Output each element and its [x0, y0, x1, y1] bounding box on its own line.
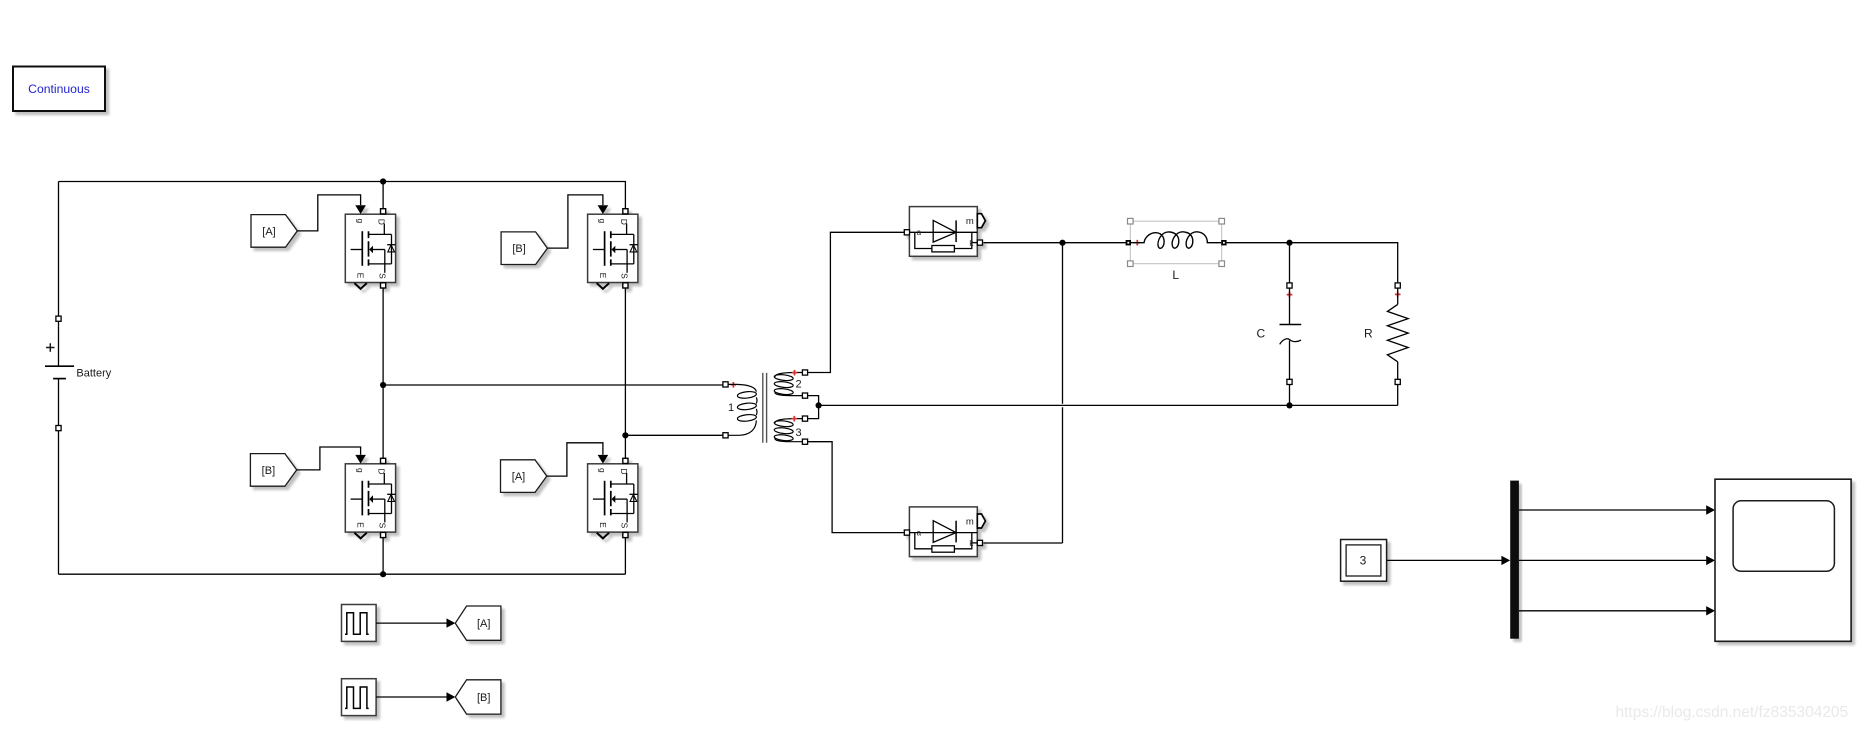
From tag [A] for Q1 gate [251, 215, 297, 248]
wire node to inductor [1063, 242, 1126, 244]
transistor Q4 (MOSFET lower-right) [588, 455, 638, 539]
wire winding3- to diode D2 anode [808, 442, 905, 533]
transistor Q3 (MOSFET lower-left) [345, 455, 395, 539]
svg-text:1: 1 [728, 402, 734, 414]
wire top DC rail [59, 182, 626, 209]
wire port to plate [1289, 288, 1291, 324]
wire From[A] to Q4 gate [547, 443, 603, 476]
svg-text:C: C [1256, 327, 1265, 341]
svg-text:[B]: [B] [477, 692, 490, 704]
transistor Q2 (MOSFET upper-right) [588, 205, 638, 288]
svg-text:Continuous: Continuous [28, 82, 90, 96]
wire From[B] to Q2 gate [547, 195, 603, 248]
red plus primary [731, 382, 737, 388]
wire right bridge leg [624, 289, 626, 459]
wire demux out 1 to scope [1519, 509, 1707, 511]
svg-text:[A]: [A] [512, 471, 525, 483]
wire right midpoint to transformer primary - [625, 434, 723, 436]
wire node to capacitor [1289, 243, 1291, 283]
From tag [B] for Q3 gate [250, 454, 296, 487]
svg-text:3: 3 [1360, 554, 1367, 568]
scope block [1715, 479, 1851, 641]
battery short plate [53, 378, 66, 380]
wire left bridge leg [382, 289, 384, 459]
resistor bottom port [1395, 379, 1400, 384]
svg-text:[A]: [A] [477, 618, 490, 630]
svg-text:[B]: [B] [512, 243, 525, 255]
svg-text:https://blog.csdn.net/fz835304: https://blog.csdn.net/fz835304205 [1616, 704, 1849, 721]
svg-text:3: 3 [795, 427, 801, 439]
primary winding 1 coil [728, 384, 757, 435]
capacitor bottom plate (curved) [1280, 339, 1301, 345]
red plus winding 3 [792, 416, 798, 422]
wire demux out 3 to scope [1519, 610, 1707, 612]
pulse generator P2 [342, 679, 377, 716]
transformer T1 [723, 370, 808, 444]
resistor R [1364, 283, 1408, 406]
powergui block (Continuous) [13, 67, 105, 112]
wire to return rail [1397, 385, 1399, 406]
wire bottom DC rail [59, 573, 626, 575]
wire battery bottom to rail [58, 431, 60, 574]
selection handles [1128, 218, 1225, 266]
wire battery top to rail [58, 182, 60, 316]
capacitor top port [1287, 283, 1292, 288]
winding 2 ports [802, 370, 807, 375]
wire constant 3 to demux [1387, 559, 1502, 561]
secondary winding 2 coil [774, 373, 802, 396]
node bottom rail / Q3 source [380, 571, 386, 577]
wire rectifier link vertical (with crossover gap) [983, 243, 1062, 543]
From tag [B] for Q2 gate [501, 232, 547, 265]
wire port to zigzag [1397, 288, 1399, 304]
battery DC source [45, 182, 112, 575]
wire P2 to Goto[B] [376, 696, 447, 698]
primary winding 1 port - [723, 433, 728, 438]
red plus capacitor [1287, 292, 1293, 298]
diode D2 (lower rectifier) [904, 507, 985, 557]
node top rail / Q1 drain [380, 178, 386, 184]
wire port to plate [58, 322, 60, 367]
battery - terminal port [56, 426, 61, 431]
node capacitor bottom on return rail [1286, 402, 1292, 408]
primary winding 1 port + [723, 382, 728, 387]
Goto tag [B] [455, 680, 501, 714]
node left leg midpoint [380, 382, 386, 388]
svg-text:L: L [1172, 268, 1179, 282]
red plus inductor [1135, 240, 1141, 246]
transistor Q1 (MOSFET upper-left) [345, 205, 395, 288]
wire inductor to output node [1227, 243, 1398, 283]
capacitor C [1256, 283, 1301, 406]
battery long plate [45, 365, 74, 367]
selection box [1130, 221, 1221, 264]
inductor left port [1126, 240, 1131, 245]
demux bar [1510, 481, 1519, 639]
resistor top port [1395, 283, 1400, 288]
svg-text:2: 2 [795, 379, 801, 391]
wire to return rail [1289, 385, 1291, 406]
red plus resistor [1395, 292, 1401, 298]
diode D1 (upper rectifier) [904, 207, 985, 257]
wire center tap to load return rail [819, 404, 1398, 406]
constant block 3 [1341, 540, 1387, 582]
svg-text:[B]: [B] [262, 465, 275, 477]
wire P1 to Goto[A] [376, 622, 447, 624]
red plus winding 2 [792, 370, 798, 376]
wire D1 cathode to filter node [983, 242, 1062, 244]
pulse generator P1 [342, 605, 377, 642]
wire Q4 source to bottom rail [624, 538, 626, 574]
Goto tag [A] [455, 606, 501, 640]
inductor right port [1221, 240, 1226, 245]
capacitor bottom port [1287, 379, 1292, 384]
wire rail to Q1 drain [382, 182, 384, 209]
winding 3 ports [802, 416, 807, 421]
wire From[B] to Q3 gate [297, 447, 361, 470]
node right leg midpoint [622, 432, 628, 438]
battery + terminal port [56, 316, 61, 321]
From tag [A] for Q4 gate [501, 460, 547, 493]
wire zigzag to bottom port [1397, 362, 1399, 379]
svg-text:Battery: Battery [76, 368, 111, 380]
resistor zigzag [1387, 304, 1408, 361]
svg-text:R: R [1364, 326, 1373, 340]
battery plus sign [46, 343, 55, 352]
wire center tap (winding2- to winding3+) [808, 396, 819, 419]
wire demux out 2 to scope [1519, 559, 1707, 561]
wire left midpoint to transformer primary + [383, 384, 723, 386]
inductor L (selected) [1126, 218, 1227, 282]
wire winding2+ to diode D1 anode [808, 232, 905, 372]
capacitor top plate [1280, 324, 1302, 326]
node capacitor top [1286, 240, 1292, 246]
inductor coil [1131, 232, 1221, 248]
wire plate to port [58, 379, 60, 426]
node center tap [816, 402, 822, 408]
wire From[A] to Q1 gate [297, 195, 360, 231]
wire Q3 source to bottom rail [382, 538, 384, 574]
transformer core [763, 373, 767, 443]
svg-text:[A]: [A] [262, 226, 275, 238]
node rectifier output [1059, 240, 1065, 246]
wire plate to bottom port [1289, 341, 1291, 380]
secondary winding 3 coil [774, 419, 802, 442]
